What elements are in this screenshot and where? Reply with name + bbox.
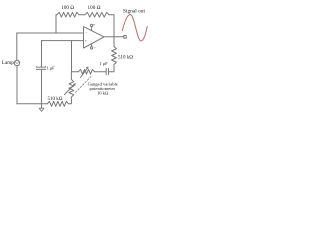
resistor R1 100 Ohm [57,12,79,17]
svg-text:510 kΩ: 510 kΩ [48,97,63,102]
wire output [104,36,124,38]
resistor R2 100 Ohm [85,12,109,17]
capacitor C2 branch vertical upper [41,41,43,68]
op-amp power pin minus [91,44,93,47]
wire feedback right vertical [109,15,114,37]
resistor 510 kOhm bottom [47,101,68,106]
wire noninverting input [42,40,84,42]
sine wave signal [122,15,147,42]
pot2 arrow [65,84,75,94]
wire cap to corner [109,65,115,72]
potentiometer P1 zigzag [79,69,95,74]
svg-text:+: + [85,39,87,43]
wire between resistors [56,14,85,16]
op-amp U1 [84,27,105,48]
svg-text:510 kΩ: 510 kΩ [118,56,133,61]
capacitor C1 1uF plates [105,69,107,75]
svg-text:1 μF: 1 μF [47,66,56,71]
svg-text:−: − [85,31,87,35]
svg-text:Signal out: Signal out [123,9,146,15]
pot1 arrow [81,68,88,78]
svg-text:100 Ω: 100 Ω [88,5,101,11]
ganged link dashed [76,76,92,93]
svg-text:Lamp: Lamp [2,60,15,66]
wire inverting input node [17,32,84,34]
wire Wien branch [71,71,78,73]
signal out terminal [124,35,126,38]
wire bottom rail [17,103,48,105]
wire lamp branch lower [16,66,18,104]
resistor 510 kOhm right vertical [112,47,117,65]
wire to pot2 bottom [69,97,72,104]
svg-text:−: − [94,46,96,50]
svg-text:10 kΩ: 10 kΩ [97,90,109,95]
potentiometer P2 zigzag [69,80,74,98]
ground [41,104,43,108]
capacitor C2 1uF plates [36,65,45,68]
wire pot1 to cap [95,71,107,73]
wire pot junction vertical [70,41,72,80]
wire resistor top to output node [113,37,115,47]
capacitor C2 branch vertical lower [41,69,43,103]
wire lamp branch upper [16,33,18,60]
wire feedback left vertical [55,15,57,33]
svg-text:1 μF: 1 μF [99,61,108,66]
lamp L1 [14,60,19,65]
svg-text:+: + [93,23,95,27]
op-amp power pin plus [91,27,93,31]
svg-text:100 Ω: 100 Ω [61,5,74,11]
